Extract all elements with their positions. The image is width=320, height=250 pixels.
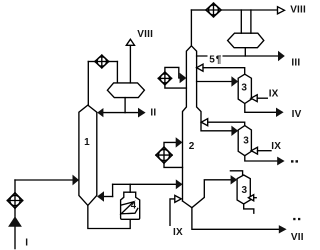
heating coil zigzag in reboiler	[121, 202, 138, 214]
valve/exchanger D5 on feed I	[7, 193, 23, 209]
wire condenser D1 to separator hexagon 1	[109, 61, 118, 63]
column 2 bottom left chamfer	[183, 201, 192, 208]
inlet arrow (filled up triangle) on feed I	[8, 216, 22, 227]
arrow vapor return into column 1 (filled left)	[97, 191, 104, 201]
svg-text:4: 4	[131, 201, 137, 212]
svg-text:VIII: VIII	[137, 29, 153, 40]
wire column 1 overhead riser	[87, 62, 89, 106]
wire D4 draw from column 2	[164, 163, 183, 167]
arrow bottoms feed into column 2 (filled right)	[176, 179, 183, 189]
dots lower right	[293, 218, 300, 220]
arrow feed 3b (filled right)	[231, 126, 238, 136]
arrow product III (filled right)	[278, 51, 285, 61]
pumparound cooler D4 (diamond)	[156, 147, 172, 163]
wire hexagon 2 inlet risers	[240, 10, 242, 33]
wire column 1 bottoms to reboiler	[88, 205, 130, 228]
arrow product IV (filled right)	[276, 108, 284, 117]
svg-text:I: I	[25, 238, 28, 249]
svg-text:5: 5	[209, 54, 215, 65]
wire return from stripper 3b to column 2 (open left arrow)	[201, 119, 207, 126]
stripper 3c	[237, 175, 250, 204]
svg-text:III: III	[291, 57, 300, 68]
wire distillate line II	[99, 112, 139, 114]
stripper 3a	[238, 74, 251, 103]
wire 3b bottoms	[245, 156, 277, 161]
svg-text:2: 2	[189, 141, 195, 152]
wire product line III	[197, 55, 279, 57]
wire D3 return to column 2	[165, 67, 180, 78]
arrow 3b bottoms (filled right)	[277, 157, 284, 166]
svg-text:3: 3	[242, 185, 248, 196]
wire 3c bottoms	[244, 204, 254, 213]
svg-text:3: 3	[241, 82, 247, 93]
column 1	[79, 105, 97, 205]
wire vent line to VIII (left)	[129, 45, 131, 83]
wire stream IX into column 2	[170, 199, 175, 225]
svg-text:VII: VII	[291, 232, 304, 243]
arrow product VII (filled right, large)	[279, 225, 287, 233]
wire reboiler vapor return	[129, 184, 131, 192]
arrow into column 1 (feed)	[73, 175, 80, 186]
wire feed I riser	[14, 180, 16, 249]
open right-triangle vent VIII	[278, 7, 285, 14]
separator hexagon 1	[107, 83, 144, 98]
stripper 3b	[238, 126, 251, 156]
svg-text:VIII: VIII	[290, 4, 306, 15]
wire condenser D2 to VIII (right)	[221, 9, 277, 11]
wire hexagon 1 bottom to line II	[124, 98, 126, 113]
stream IX into 3b (open left arrow)	[251, 147, 257, 154]
wire return from stripper 3a to column 2 (open left arrow)	[197, 64, 203, 71]
arrow reflux into column 1 top (filled left)	[97, 108, 103, 117]
svg-text:¶: ¶	[216, 54, 222, 65]
wire feed to 3c from column 2 bottom	[192, 180, 231, 208]
wire D4 return to column 2	[164, 142, 176, 147]
svg-text:IX: IX	[269, 89, 279, 100]
arrow feed 3c (filled right)	[231, 175, 238, 184]
wire feed I horizontal to column 1	[15, 179, 74, 181]
arrow feed 3a (filled right)	[231, 76, 238, 86]
pumparound cooler D3 (diamond)	[158, 72, 171, 85]
stream IX into 3a (open left arrow)	[251, 95, 257, 102]
wire feed to 3a	[197, 81, 232, 83]
svg-text:1: 1	[84, 137, 90, 148]
column 2	[183, 46, 202, 201]
open right-triangle IX into column 2	[175, 195, 182, 202]
label 5 pilcrow (stray mark)	[208, 53, 223, 65]
condenser D2 (diamond with circle)	[206, 3, 221, 17]
wire stub above stripper 3c	[230, 171, 242, 175]
wire feed to 3b	[201, 130, 231, 132]
reboiler 4 (bottle shape)	[121, 192, 140, 219]
small open left arrow at 3c right side	[248, 195, 253, 201]
svg-text:IX: IX	[173, 227, 183, 238]
arrow D4 return (filled right)	[176, 137, 183, 147]
wire column 2 overhead riser	[190, 10, 192, 46]
open up-triangle vent VIII	[126, 39, 134, 45]
wire hexagon 2 bottom to line III	[244, 48, 246, 56]
separator hexagon 2	[228, 33, 264, 48]
wire D3 draw from column 2	[165, 85, 187, 88]
condenser D1 (diamond with circle)	[95, 55, 109, 68]
wire bottoms VII	[192, 208, 279, 230]
wire 3a bottoms to IV	[245, 104, 276, 113]
svg-text:3: 3	[243, 135, 249, 146]
arrow D3 return (filled right)	[180, 73, 187, 83]
svg-text:II: II	[150, 108, 156, 119]
svg-text:IX: IX	[271, 141, 281, 152]
arrow product II (filled right)	[138, 108, 146, 118]
svg-text:IV: IV	[292, 109, 302, 120]
dots after 3b bottoms	[291, 160, 298, 162]
